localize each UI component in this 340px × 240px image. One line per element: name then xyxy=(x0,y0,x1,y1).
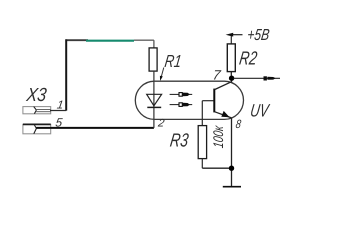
svg-text:R3: R3 xyxy=(169,131,190,152)
svg-text:Х3: Х3 xyxy=(24,85,48,106)
svg-text:8: 8 xyxy=(235,117,242,131)
svg-text:100к: 100к xyxy=(210,124,226,149)
svg-text:7: 7 xyxy=(212,68,222,83)
svg-text:+5В: +5В xyxy=(246,26,271,44)
svg-text:R1: R1 xyxy=(163,51,182,71)
svg-text:UV: UV xyxy=(249,100,271,120)
svg-text:R2: R2 xyxy=(238,48,259,69)
svg-text:1: 1 xyxy=(56,99,64,111)
